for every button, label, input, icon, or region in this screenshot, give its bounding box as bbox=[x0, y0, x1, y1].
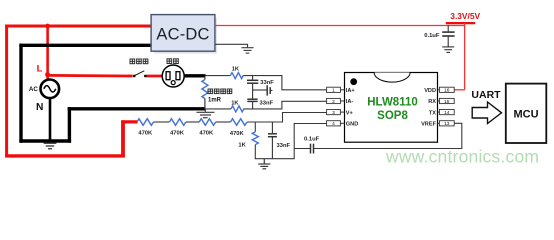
wire relay to load red bbox=[146, 75, 163, 78]
wire node A to jog bbox=[243, 76, 327, 90]
svg-text:3.3V/5V: 3.3V/5V bbox=[450, 11, 480, 21]
wire N top black horizontal bbox=[19, 44, 151, 47]
svg-text:1mR: 1mR bbox=[208, 98, 222, 104]
svg-text:2: 2 bbox=[332, 99, 335, 105]
svg-text:15: 15 bbox=[444, 99, 450, 105]
svg-text:RX: RX bbox=[428, 99, 436, 105]
svg-text:IA-: IA- bbox=[346, 99, 354, 105]
svg-text:13: 13 bbox=[444, 121, 450, 127]
svg-text:L: L bbox=[37, 63, 43, 74]
resistor R6 470K #1 bbox=[137, 119, 154, 126]
svg-text:33nF: 33nF bbox=[277, 143, 291, 149]
ground at AC source bbox=[44, 141, 57, 149]
capacitor C3 33nF (bottom) bbox=[247, 90, 257, 109]
resistor R1 1K (IA+) bbox=[230, 73, 243, 79]
wire divider seg3 bbox=[216, 121, 231, 123]
resistor R10 1K vertical bbox=[252, 122, 258, 159]
pin 13 box bbox=[438, 121, 455, 127]
capacitor C2 33nF (top) bbox=[247, 76, 258, 90]
pin 1 box bbox=[327, 87, 345, 93]
wire N left black vertical bbox=[19, 44, 22, 143]
svg-text:16: 16 bbox=[444, 88, 450, 94]
svg-text:3: 3 bbox=[332, 110, 335, 116]
resistor R2 1K (IA-) bbox=[231, 106, 244, 112]
svg-text:VDD: VDD bbox=[424, 88, 436, 94]
svg-text:AC: AC bbox=[29, 86, 38, 93]
svg-text:HLW8110: HLW8110 bbox=[367, 96, 418, 108]
wire load to shunt thick bbox=[184, 74, 206, 77]
wire divider seg1 bbox=[154, 121, 170, 123]
wire node B to jog bbox=[244, 101, 327, 109]
capacitor C5 33nF divider bbox=[268, 122, 277, 159]
ac source V1 bbox=[41, 80, 60, 99]
svg-text:VREF: VREF bbox=[421, 122, 437, 128]
resistor R8 470K #3 bbox=[199, 119, 216, 126]
wire AC source drop to ground rail bbox=[49, 98, 52, 142]
pin 3 box bbox=[327, 110, 345, 116]
node L top junction dot bbox=[45, 24, 50, 29]
label load 负载 bbox=[167, 59, 178, 64]
wire IA+ line bbox=[206, 75, 231, 77]
label sampling resistor 采样电阻 bbox=[208, 89, 232, 94]
IC U1 HLW8110 body bbox=[345, 73, 438, 143]
wire divider red stub to first 470K bbox=[121, 120, 137, 123]
wire L left red vertical bbox=[5, 25, 8, 158]
wire AC-DC output ground lead bbox=[215, 44, 248, 47]
svg-text:IA+: IA+ bbox=[346, 88, 356, 94]
svg-text:470K: 470K bbox=[138, 130, 153, 136]
svg-text:14: 14 bbox=[444, 110, 450, 116]
pin 4 box bbox=[327, 121, 345, 127]
wire divider node to V+ jog bbox=[247, 113, 327, 123]
svg-text:www.cntronics.com: www.cntronics.com bbox=[385, 147, 539, 167]
wire 3.3V/5V supply line red bbox=[215, 25, 465, 27]
svg-text:AC-DC: AC-DC bbox=[156, 26, 209, 44]
svg-text:33nF: 33nF bbox=[260, 101, 274, 107]
wire rail riser bbox=[464, 23, 466, 26]
pin 14 box bbox=[438, 110, 455, 116]
svg-text:470K: 470K bbox=[199, 130, 214, 136]
wire VDD red drop bbox=[464, 26, 466, 90]
wire VREF return line bbox=[314, 123, 462, 148]
ground at AC-DC output bbox=[241, 48, 253, 53]
capacitor C4 mid horizontal bbox=[253, 85, 273, 95]
svg-text:GND: GND bbox=[346, 122, 358, 128]
svg-text:UART: UART bbox=[471, 89, 501, 101]
node L junction dot bbox=[45, 72, 50, 77]
capacitor C6 0.1uF (VREF) bbox=[294, 144, 313, 154]
wire GND pin net bbox=[255, 124, 327, 159]
wire L drop to AC source bbox=[46, 26, 49, 81]
resistor R7 470K #2 bbox=[169, 119, 186, 126]
svg-text:1K: 1K bbox=[238, 142, 246, 148]
wire VDD stub bbox=[454, 89, 465, 91]
wire IA- line bbox=[205, 108, 231, 110]
svg-text:470K: 470K bbox=[230, 131, 245, 137]
resistor R9 470K #4 bbox=[231, 119, 248, 126]
capacitor C1 0.1uF decoupling bbox=[442, 26, 454, 47]
wire N bottom black horizontal bbox=[19, 139, 71, 142]
power rail 3.3V/5V bar bbox=[446, 22, 475, 24]
svg-text:470K: 470K bbox=[170, 130, 185, 136]
svg-text:1: 1 bbox=[332, 88, 335, 94]
label relay 继电器 bbox=[130, 59, 148, 64]
resistor R5 shunt 1mR vertical bbox=[202, 76, 208, 109]
arrow UART block bbox=[472, 102, 501, 124]
svg-text:TX: TX bbox=[429, 110, 436, 116]
pin 16 box bbox=[438, 87, 455, 93]
svg-text:33nF: 33nF bbox=[260, 80, 274, 86]
AC-DC converter U2 bbox=[151, 15, 217, 54]
svg-text:N: N bbox=[36, 102, 43, 113]
pin 15 box bbox=[438, 98, 455, 104]
wire N step riser bbox=[68, 107, 71, 143]
wire L feeder to relay bbox=[48, 74, 133, 77]
ground at C1 bbox=[442, 47, 454, 53]
svg-text:SOP8: SOP8 bbox=[377, 110, 408, 122]
svg-text:MCU: MCU bbox=[513, 109, 538, 121]
svg-text:1K: 1K bbox=[232, 66, 240, 72]
svg-text:V+: V+ bbox=[346, 110, 354, 116]
ground at shunt bottom bbox=[197, 109, 215, 118]
wire divider seg2 bbox=[186, 121, 199, 123]
wire L top red rail bbox=[5, 25, 151, 28]
svg-text:0.1uF: 0.1uF bbox=[424, 33, 440, 39]
wire N line to shunt bbox=[68, 107, 206, 110]
wire L bottom red horizontal bbox=[5, 154, 125, 157]
relay K1 contacts bbox=[133, 71, 147, 78]
svg-text:1K: 1K bbox=[231, 100, 239, 106]
svg-text:0.1uF: 0.1uF bbox=[304, 136, 320, 142]
wire divider red riser bbox=[121, 120, 125, 157]
load LD1 outlet bbox=[162, 65, 184, 87]
pin 2 box bbox=[327, 98, 345, 104]
ground at divider bbox=[258, 159, 270, 169]
svg-text:4: 4 bbox=[332, 121, 335, 127]
MCU U3 box bbox=[506, 84, 547, 143]
